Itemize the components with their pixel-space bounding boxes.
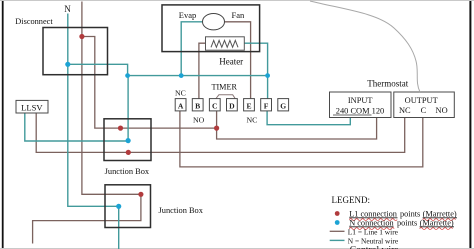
wire junction box 2 down-left to compressor feed: [33, 194, 141, 243]
wire fan L1 to timer E: [224, 22, 250, 99]
thermostat INPUT terminal block: [330, 92, 392, 118]
svg-text:240 COM 120: 240 COM 120: [336, 106, 384, 115]
wire LLSV L1 to junction box 1 splice to thermostat OUTPUT NC: [36, 113, 405, 152]
svg-text:(Marrette): (Marrette): [420, 218, 454, 227]
svg-text:(Marrette): (Marrette): [423, 209, 457, 218]
node L1 splice junction box 1: [118, 126, 123, 131]
svg-text:LEGEND:: LEGEND:: [332, 195, 371, 205]
fan motor M1: [203, 14, 225, 30]
svg-text:NC: NC: [399, 106, 411, 115]
timer terminal D: [227, 99, 238, 111]
node N tee to junction box 1: [125, 73, 130, 78]
legend L1 wire sample: [330, 230, 345, 232]
node L1 splice in junction box 2: [138, 192, 143, 197]
node L1 splice LLSV/NC line in junction box 1: [126, 150, 131, 155]
wire N branch up to heater right terminal: [244, 43, 268, 75]
node N tee heater/timer F: [265, 73, 270, 78]
timer terminal E: [244, 99, 255, 111]
wire L1 drop from top to disconnect splice: [81, 2, 83, 37]
timer terminal B: [192, 99, 203, 111]
svg-text:C: C: [421, 106, 427, 115]
thermostat OUTPUT terminal block: [394, 92, 455, 118]
svg-text:points: points: [400, 209, 420, 218]
wire heater L1 to timer B: [199, 43, 206, 98]
timer motor bracket between C and D: [216, 95, 236, 99]
svg-text:E: E: [246, 101, 251, 110]
node N splice in junction box 2: [116, 204, 121, 209]
svg-text:Disconnect: Disconnect: [15, 17, 53, 26]
border frame left: [2, 0, 4, 249]
timer terminal A: [175, 99, 186, 111]
wire L1 left drop to junction box 2: [82, 37, 141, 195]
node L1 splice under timer C: [214, 126, 219, 131]
svg-text:L1 connection: L1 connection: [349, 209, 398, 218]
border frame top (faint): [0, 0, 474, 1]
wire LLSV N to junction box 1: [25, 113, 128, 141]
wire N drop from top label into disconnect: [67, 14, 69, 65]
wire N branch down to junction box 1: [127, 76, 129, 141]
wire disconnect splice right-down to timer C run: [82, 37, 217, 129]
node L1 splice in disconnect: [79, 34, 84, 39]
svg-text:Junction Box: Junction Box: [159, 206, 204, 215]
svg-text:Control wire: Control wire: [350, 244, 399, 249]
svg-text:points: points: [397, 218, 417, 227]
disconnect switch box: [43, 28, 108, 75]
svg-text:Junction Box: Junction Box: [105, 167, 150, 176]
thermostat capillary sensing tube: [310, 1, 420, 92]
svg-text:LLSV: LLSV: [21, 102, 43, 112]
svg-text:INPUT: INPUT: [348, 96, 373, 105]
svg-text:D: D: [229, 101, 235, 110]
junction box 2: [105, 185, 151, 228]
svg-text:C: C: [212, 101, 217, 110]
wire timer F to thermostat INPUT COM: [267, 111, 350, 125]
svg-text:NC: NC: [246, 116, 257, 125]
LLSV solenoid box: [16, 100, 48, 113]
heater element box: [206, 37, 245, 50]
border frame right: [469, 0, 471, 249]
timer terminal F: [261, 99, 272, 111]
svg-text:N connection: N connection: [349, 218, 394, 227]
timer terminal G: [278, 99, 289, 111]
legend L1 connection dot sample: [335, 211, 340, 216]
node N splice in disconnect: [65, 62, 70, 67]
svg-text:Fan: Fan: [232, 10, 246, 20]
legend N connection dot sample: [335, 220, 340, 225]
svg-text:A: A: [178, 101, 184, 110]
node N splice in junction box 1: [126, 138, 131, 143]
wire junction box 2 N down to evap fan feed: [118, 206, 120, 249]
border frame bottom (faint): [0, 248, 474, 249]
svg-text:NO: NO: [436, 106, 448, 115]
wire timer A to thermostat OUTPUT C: [180, 111, 423, 167]
svg-text:Thermostat: Thermostat: [367, 79, 408, 89]
svg-text:F: F: [264, 101, 269, 110]
wire timer C stub down to splice: [216, 111, 218, 128]
timer terminal C: [209, 99, 220, 111]
evaporator box: [162, 5, 260, 52]
wire N long drop to junction box 2: [68, 64, 119, 206]
svg-text:Heater: Heater: [219, 57, 243, 67]
svg-text:NC: NC: [175, 89, 186, 98]
svg-text:Evap: Evap: [179, 10, 196, 20]
legend N wire sample: [330, 239, 345, 241]
wire splice under C to thermostat INPUT 120: [217, 117, 377, 139]
svg-text:NO: NO: [193, 116, 205, 125]
wire N branch down to timer F: [267, 76, 269, 99]
junction box 1: [104, 119, 151, 161]
svg-text:OUTPUT: OUTPUT: [405, 96, 438, 105]
node N tee to fan: [179, 73, 184, 78]
svg-text:L1 = Line 1 wire: L1 = Line 1 wire: [348, 227, 399, 236]
svg-text:N: N: [64, 4, 71, 14]
wire N bus from disconnect stepping down and right: [68, 64, 268, 75]
wire N branch up to fan motor: [181, 22, 203, 76]
svg-text:B: B: [195, 101, 200, 110]
svg-text:G: G: [280, 101, 286, 110]
resistor heater zigzag: [211, 40, 238, 47]
svg-text:TIMER: TIMER: [211, 83, 237, 92]
